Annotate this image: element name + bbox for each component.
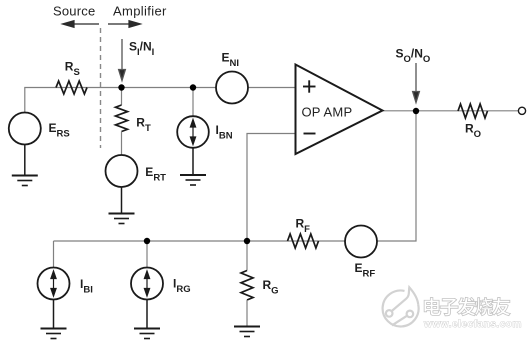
- resistor R_T: [116, 105, 128, 132]
- wire R_T drop: [121, 88, 123, 106]
- wire inverting input: [247, 134, 296, 242]
- svg-text:www.elecfans.com: www.elecfans.com: [423, 319, 522, 330]
- node input-top: [118, 84, 124, 90]
- ground E_RS: [12, 176, 38, 186]
- watermark logo: [383, 287, 419, 326]
- watermark text dianzifashaoyou: [424, 297, 510, 316]
- arrow S_O/N_O: [413, 63, 420, 103]
- pin + noninverting input: [303, 80, 316, 92]
- op-amp U1: [296, 65, 383, 155]
- resistor R_F: [288, 234, 319, 248]
- node ibn-top: [190, 84, 196, 90]
- current source I_BI: [38, 268, 70, 300]
- wire R_G drop: [246, 241, 248, 271]
- source E_RT: [106, 155, 138, 187]
- wire I_RG to ground: [146, 300, 148, 329]
- current source I_RG: [131, 268, 163, 300]
- wire R_T to E_RT: [121, 132, 123, 156]
- wire output rail: [383, 110, 519, 112]
- resistor R_O: [458, 104, 488, 118]
- arrow S_I/N_I: [119, 39, 126, 81]
- current source I_BN: [177, 116, 209, 148]
- ground I_BN: [180, 175, 206, 185]
- dashed boundary: [100, 28, 102, 148]
- svg-text:OP AMP: OP AMP: [302, 105, 353, 120]
- arrow amplifier right: [108, 21, 141, 28]
- wire bottom rail: [54, 240, 345, 242]
- node output: [413, 108, 419, 114]
- ground E_RT: [109, 214, 135, 224]
- node irg: [144, 238, 150, 244]
- wire E_RT to ground: [121, 187, 123, 214]
- node rg-feedback: [244, 238, 250, 244]
- wire I_BN to ground: [192, 148, 194, 175]
- wire I_BN drop: [192, 88, 194, 118]
- wire E_RS to ground: [24, 145, 26, 176]
- ground I_RG: [134, 329, 160, 339]
- svg-text:Source: Source: [53, 4, 95, 19]
- pin - inverting input: [304, 133, 316, 135]
- output terminal: [518, 107, 525, 114]
- source E_RS: [9, 113, 41, 145]
- ground R_G: [234, 327, 260, 337]
- arrow source left: [63, 21, 100, 28]
- wire top rail: [25, 88, 296, 114]
- ground I_BI: [41, 329, 67, 339]
- source E_NI: [216, 72, 248, 104]
- resistor R_S: [56, 81, 87, 94]
- svg-text:Amplifier: Amplifier: [113, 4, 167, 19]
- source E_RF: [345, 226, 377, 258]
- wire I_BI to ground: [53, 300, 55, 329]
- wire R_G to ground: [246, 300, 248, 326]
- resistor R_G: [241, 271, 253, 301]
- wire output to feedback: [377, 111, 416, 241]
- wire I_RG drop: [146, 241, 148, 268]
- wire I_BI drop: [53, 241, 55, 268]
